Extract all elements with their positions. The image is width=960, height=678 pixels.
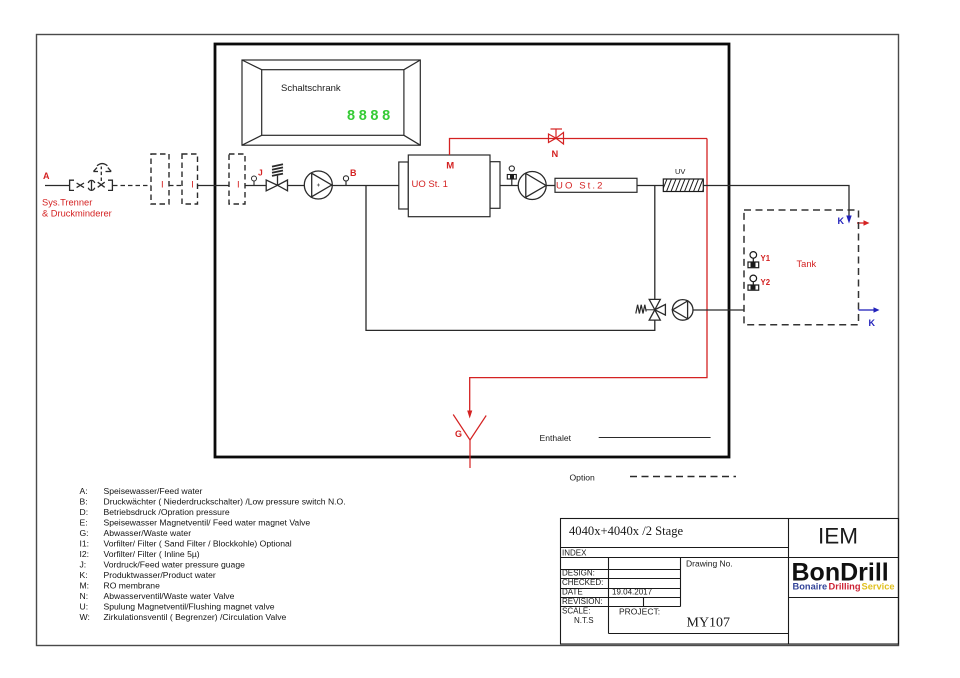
- svg-text:Schaltschrank: Schaltschrank: [281, 83, 341, 94]
- svg-text:IEM: IEM: [818, 524, 858, 549]
- tank: [744, 210, 859, 325]
- RO module UO St.1: [399, 155, 500, 217]
- svg-text:Vorfilter/ Filter ( Inlin: Vorfilter/ Filter ( Inline 5µ): [104, 549, 200, 559]
- svg-text:M:: M:: [80, 581, 90, 591]
- svg-text:UV: UV: [675, 167, 685, 176]
- sensor D: [511, 178, 513, 186]
- svg-text:8: 8: [359, 108, 367, 124]
- svg-text:Vorfilter/ Filter ( Sand: Vorfilter/ Filter ( Sand Filter / Blockk…: [104, 539, 292, 549]
- red vertical waste down: [470, 139, 707, 413]
- svg-text:Bonaire: Bonaire: [793, 582, 828, 592]
- svg-text:K: K: [838, 216, 845, 226]
- wire module to pump2: [500, 185, 518, 187]
- svg-text:DATE: DATE: [562, 588, 583, 597]
- legend: [80, 486, 346, 622]
- svg-text:Drawing No.: Drawing No.: [686, 559, 733, 569]
- filter I3 inline: [229, 154, 245, 204]
- svg-text:Spulung Magnetventil/Flushing: Spulung Magnetventil/Flushing magnet val…: [104, 602, 275, 612]
- pressure reducer Druckminderer dome: [93, 164, 111, 181]
- svg-text:A:: A:: [80, 486, 88, 496]
- svg-text:8: 8: [382, 108, 390, 124]
- svg-text:N:: N:: [80, 591, 89, 601]
- svg-text:INDEX: INDEX: [562, 549, 587, 558]
- svg-text:Vordruck/Feed water pressure g: Vordruck/Feed water pressure guage: [104, 560, 246, 570]
- wire feed inlet: [45, 185, 69, 187]
- svg-text:N: N: [552, 149, 559, 159]
- svg-text:I1:: I1:: [80, 539, 90, 549]
- svg-text:M: M: [446, 161, 454, 172]
- svg-text:A: A: [43, 171, 50, 181]
- svg-text:Produktwasser/Product water: Produktwasser/Product water: [104, 570, 216, 580]
- wire valve to pump: [288, 185, 304, 187]
- svg-text:N.T.S: N.T.S: [574, 616, 594, 625]
- pump P3: [672, 300, 693, 321]
- pressure switch B: [345, 181, 347, 186]
- svg-text:REVISION:: REVISION:: [562, 597, 602, 606]
- svg-text:U:: U:: [80, 602, 89, 612]
- backflow preventer Sys.Trenner: [70, 180, 113, 190]
- svg-text:Y1: Y1: [761, 254, 771, 263]
- wire dashed to filters: [113, 185, 151, 187]
- system boundary box: [215, 44, 729, 457]
- svg-text:Abwasserventil/Waste water Val: Abwasserventil/Waste water Valve: [104, 591, 235, 601]
- svg-text:MY107: MY107: [687, 616, 731, 631]
- svg-text:K: K: [869, 318, 876, 328]
- valve N: [549, 129, 564, 144]
- svg-text:Betriebsdruck /Opration pressu: Betriebsdruck /Opration pressure: [104, 507, 230, 517]
- svg-text:G:: G:: [80, 528, 89, 538]
- svg-text:Drilling: Drilling: [829, 582, 861, 592]
- svg-text:8: 8: [347, 108, 355, 124]
- svg-text:W:: W:: [80, 612, 90, 622]
- svg-text:G: G: [455, 429, 462, 439]
- svg-text:Speisewasser/Feed water: Speisewasser/Feed water: [104, 486, 203, 496]
- svg-text:PROJECT:: PROJECT:: [619, 607, 660, 617]
- svg-text:I: I: [237, 179, 240, 190]
- control cabinet Schaltschrank: [242, 60, 420, 145]
- title block: [561, 519, 899, 645]
- wire: [546, 185, 555, 187]
- filter I2: [182, 154, 198, 204]
- wire: [637, 185, 663, 187]
- svg-text:Speisewasser Magnetventil/ Fee: Speisewasser Magnetventil/ Feed water ma…: [104, 518, 311, 528]
- red waste wire from M: [450, 139, 708, 156]
- svg-text:I: I: [191, 179, 194, 190]
- spring-loaded valve: [266, 164, 287, 191]
- svg-text:UO St. 1: UO St. 1: [412, 179, 448, 190]
- level switch Y2: [750, 275, 757, 282]
- svg-text:Abwasser/Waste water: Abwasser/Waste water: [104, 528, 192, 538]
- level switch Y1: [750, 252, 757, 259]
- svg-text:SCALE:: SCALE:: [562, 607, 590, 616]
- svg-text:Sys.Trenner: Sys.Trenner: [42, 198, 92, 208]
- svg-text:Y2: Y2: [761, 278, 771, 287]
- svg-text:Zirkulationsventil ( Begrenz: Zirkulationsventil ( Begrenzer) /Circula…: [104, 612, 287, 622]
- wire from main line down to valve W: [654, 186, 656, 301]
- svg-text:Tank: Tank: [797, 259, 817, 269]
- wire: [245, 185, 266, 187]
- svg-text:B: B: [350, 168, 357, 178]
- pump P1: [304, 171, 332, 199]
- svg-text:I2:: I2:: [80, 549, 90, 559]
- svg-text:J: J: [258, 168, 263, 178]
- svg-text:D:: D:: [80, 507, 89, 517]
- svg-text:RO membrane: RO membrane: [104, 581, 161, 591]
- svg-text:I: I: [161, 179, 164, 190]
- svg-text:J:: J:: [80, 560, 87, 570]
- filter I1: [151, 154, 169, 204]
- svg-text:Service: Service: [862, 582, 895, 592]
- node K tank inlet arrow: [846, 216, 851, 224]
- svg-text:19.04.2017: 19.04.2017: [612, 588, 653, 597]
- svg-text:E:: E:: [80, 518, 88, 528]
- wire pump to tank: [693, 309, 744, 311]
- pressure gauge J: [253, 181, 255, 186]
- red arrow at tank inlet: [857, 222, 864, 224]
- svg-text:CHECKED:: CHECKED:: [562, 578, 603, 587]
- pump P2: [518, 172, 546, 200]
- drain G funnel: [453, 415, 486, 469]
- recirculation wire from node B branch: [366, 186, 655, 331]
- svg-text:8: 8: [370, 108, 378, 124]
- svg-text:4040x+4040x /2 Stage: 4040x+4040x /2 Stage: [569, 524, 684, 538]
- svg-text:B:: B:: [80, 497, 88, 507]
- svg-text:K:: K:: [80, 570, 88, 580]
- wire dashed between filters: [169, 185, 182, 187]
- node K tank outlet: [859, 309, 875, 311]
- svg-text:Druckwächter ( Niederdrucksc: Druckwächter ( Niederdruckschalter) /Low…: [104, 497, 346, 507]
- wire into boundary: [198, 185, 230, 187]
- svg-text:& Druckminderer: & Druckminderer: [42, 209, 112, 219]
- drain G red arrow: [467, 411, 472, 419]
- display 8888: [347, 108, 390, 124]
- valve W 3-way with spring: [636, 299, 666, 320]
- product wire to tank: [703, 186, 849, 217]
- svg-text:Option: Option: [570, 473, 596, 483]
- svg-text:UO St.2: UO St.2: [556, 180, 605, 191]
- wire: [332, 185, 399, 187]
- svg-text:DESIGN:: DESIGN:: [562, 569, 595, 578]
- svg-text:Enthalet: Enthalet: [540, 433, 572, 443]
- RO module UO St.2: [555, 178, 637, 192]
